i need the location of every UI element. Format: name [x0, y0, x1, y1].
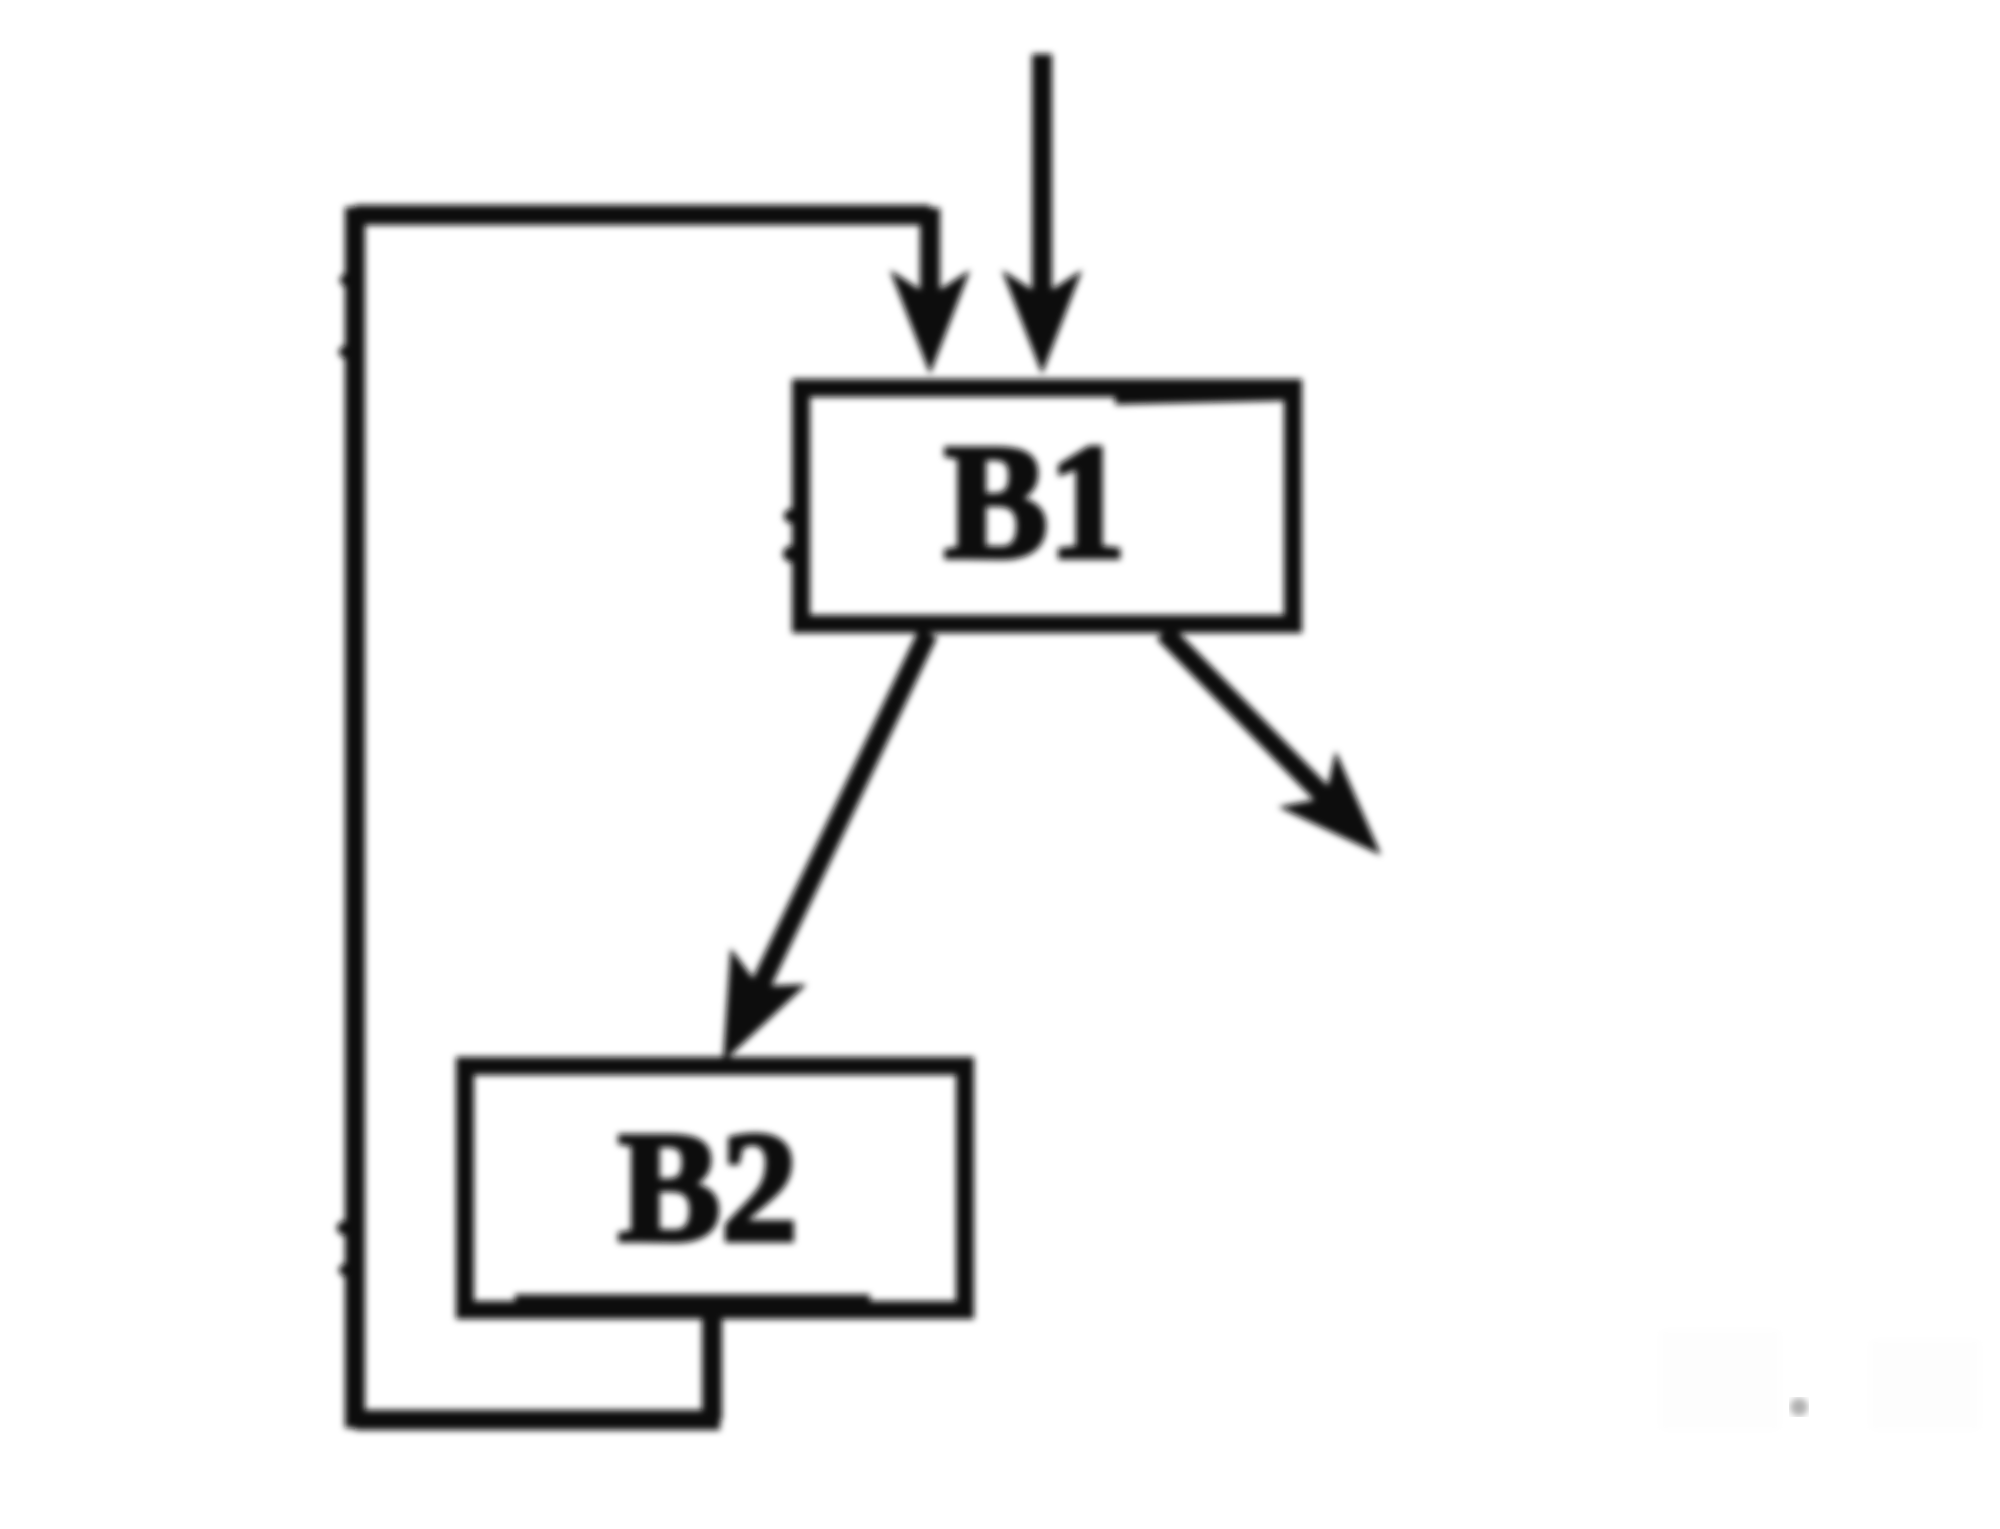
scan artifact: nubs on loop left rail [340, 274, 352, 286]
arrowhead into B1 top (external entry) [1002, 270, 1082, 374]
node B1 box [801, 388, 1293, 624]
arrowhead exit edge lower right [1278, 751, 1381, 855]
scan artifact: faint patches [1660, 1330, 1780, 1430]
wire: exit edge B1 to lower right shaft [1164, 632, 1330, 802]
wire: loop back-edge corner drop into B1 top [920, 208, 940, 300]
wire: external entry arrow shaft into B1 top [1032, 54, 1052, 310]
node B2 box [465, 1066, 965, 1310]
scan artifact: thick run on B2 bottom edge [515, 1295, 870, 1304]
scan artifact: faint dot bottom right [1790, 1398, 1808, 1416]
wire: loop back-edge left rail up [345, 207, 365, 1428]
wire: loop back-edge bottom horizontal [355, 1410, 720, 1430]
scan artifact: drips below B1 top edge [1135, 393, 1145, 403]
wire: loop back-edge drop from B2 bottom [702, 1310, 722, 1420]
arrowhead into B2 top (edge B1 to B2) [723, 948, 807, 1062]
scan artifact: nubs on B2 right edge [962, 1116, 974, 1128]
svg-text:B2: B2 [618, 1100, 798, 1275]
wire: edge B1 to B2 shaft [745, 633, 928, 1018]
wire: loop back-edge top horizontal from left rail to corner [355, 205, 930, 225]
scan artifact: nubs on B1 left edge [784, 509, 798, 523]
svg-text:B1: B1 [944, 410, 1126, 593]
arrowhead into B1 top (loop back-edge) [890, 270, 970, 374]
scan artifact: thick sag on B1 top edge right half [1115, 394, 1290, 398]
